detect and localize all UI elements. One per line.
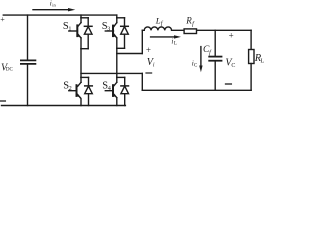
wire output bottom rail bbox=[142, 89, 251, 91]
svg-text:+: + bbox=[0, 15, 5, 24]
label Vi minus bbox=[146, 72, 152, 74]
label Vc plus bbox=[229, 30, 234, 40]
label S4 bbox=[102, 80, 111, 92]
arrow i_L bbox=[151, 35, 181, 38]
label S2 bbox=[63, 80, 72, 92]
node S1 cell bottom bar bbox=[81, 48, 88, 50]
wire output tap (S3 bottom to filter) bbox=[117, 53, 143, 55]
svg-text:L: L bbox=[174, 40, 177, 46]
inductor Lf bbox=[144, 27, 171, 30]
transistor Q S2 (IGBT) bbox=[69, 77, 81, 105]
svg-text:C: C bbox=[231, 63, 235, 69]
transistor Q S4 (IGBT) bbox=[105, 77, 117, 105]
label Rf bbox=[185, 16, 195, 28]
svg-text:f: f bbox=[161, 20, 164, 27]
wire midpoint bus (legs to Vi minus) bbox=[81, 72, 142, 74]
svg-text:f: f bbox=[209, 49, 212, 56]
wire left leg middle bbox=[80, 49, 82, 78]
wire filter riser bbox=[141, 30, 143, 53]
wire right leg middle bbox=[116, 48, 118, 77]
label i_L bbox=[171, 38, 177, 47]
svg-text:1: 1 bbox=[68, 25, 71, 32]
label Vi plus bbox=[146, 45, 151, 55]
svg-text:f: f bbox=[192, 20, 195, 27]
capacitor Cf branch bbox=[209, 30, 221, 90]
wire top DC bus bbox=[3, 14, 117, 16]
node S3 cell top bar bbox=[117, 17, 125, 19]
svg-text:i: i bbox=[153, 62, 155, 68]
svg-text:L: L bbox=[260, 57, 264, 64]
svg-text:DC: DC bbox=[6, 67, 14, 72]
label S1 bbox=[63, 21, 72, 33]
label S3 bbox=[102, 21, 111, 33]
node - terminal (input minus) bbox=[0, 100, 5, 102]
label Vdc bbox=[1, 63, 14, 74]
diode D4 (antiparallel) bbox=[121, 77, 129, 105]
capacitor DC-link (Vdc) bbox=[21, 15, 36, 105]
svg-text:C: C bbox=[194, 63, 198, 69]
node S2 cell top bar bbox=[81, 76, 89, 78]
diode D1 (antiparallel) bbox=[84, 18, 92, 49]
label Vc bbox=[225, 58, 235, 69]
wire bottom DC bus bbox=[2, 105, 126, 107]
label Cf bbox=[203, 45, 212, 56]
label i_C bbox=[192, 60, 198, 69]
resistor Rf bbox=[184, 29, 196, 34]
label RL bbox=[254, 53, 265, 64]
resistor RL (load) bbox=[249, 30, 254, 90]
wire Vi minus drop bbox=[141, 73, 143, 90]
diode D3 (antiparallel) bbox=[121, 18, 129, 49]
arrow i_C bbox=[199, 47, 202, 73]
label Vc minus bbox=[226, 83, 232, 85]
node S4 cell top bar bbox=[117, 76, 125, 78]
node + terminal (input plus) bbox=[0, 15, 5, 24]
svg-text:+: + bbox=[146, 45, 151, 55]
svg-text:2: 2 bbox=[69, 85, 72, 92]
label Lf bbox=[155, 15, 164, 27]
wire left leg upper stub bbox=[80, 15, 82, 18]
svg-text:+: + bbox=[229, 30, 234, 40]
node S3 cell bottom bar bbox=[117, 47, 125, 49]
node S1 cell top bar bbox=[81, 17, 88, 19]
label i_in bbox=[50, 0, 57, 8]
diode D2 (antiparallel) bbox=[85, 77, 93, 105]
svg-text:in: in bbox=[52, 2, 56, 7]
transistor Q S1 (IGBT) bbox=[69, 18, 81, 49]
arrow i_in bbox=[33, 8, 75, 11]
transistor Q S3 (IGBT) bbox=[105, 18, 117, 49]
wire right leg upper stub bbox=[116, 15, 118, 18]
label Vi bbox=[147, 57, 155, 68]
wire output top line bbox=[142, 29, 251, 31]
